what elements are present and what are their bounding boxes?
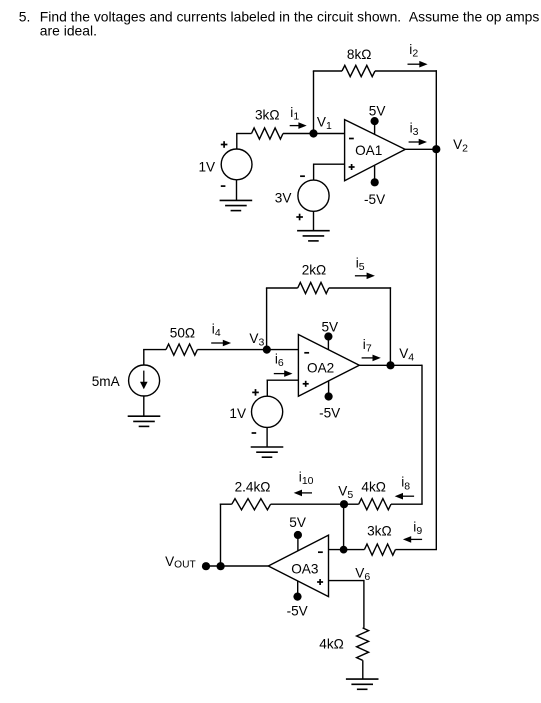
resistor R 8k feedback: [342, 65, 375, 76]
wire feedback top right segment: [375, 70, 437, 72]
svg-text:5V: 5V: [322, 320, 339, 335]
wire 3k to V2 line: [395, 549, 437, 551]
node VOUT terminal: [202, 562, 210, 570]
node VOUT junction: [217, 562, 225, 570]
current arrow i9: [410, 538, 422, 540]
wire net V2 vertical: [435, 70, 437, 549]
current arrow i3: [409, 141, 421, 143]
svg-text:OA1: OA1: [355, 143, 382, 158]
resistor R 3k i9: [364, 544, 395, 555]
wire noninverting input OA2: [267, 379, 299, 381]
svg-text:1V: 1V: [229, 406, 246, 421]
svg-text:i9: i9: [413, 520, 422, 538]
wire 4k bottom to ground: [362, 660, 364, 679]
current arrow i1: [290, 125, 300, 127]
wire 3V ground stem: [313, 211, 315, 230]
wire 5V stem OA1: [374, 121, 376, 134]
wire 1V top to resistor: [236, 134, 238, 149]
wire -5V stem OA2: [328, 381, 330, 397]
label plus input OA3: [317, 581, 323, 583]
ground under 1V top: [220, 199, 253, 201]
supply dot 5V OA1: [371, 117, 379, 125]
node minus junction OA3: [340, 546, 348, 554]
label plus of 3V: [296, 216, 303, 218]
label plus input OA1: [349, 166, 355, 168]
voltage source V 3V: [298, 180, 329, 211]
wire 2.4k down vertical: [220, 504, 222, 567]
svg-text:3kΩ: 3kΩ: [255, 107, 280, 122]
wire noninverting input OA1: [314, 163, 345, 165]
wire 2.4k left segment: [220, 503, 232, 505]
svg-text:2kΩ: 2kΩ: [302, 263, 327, 278]
wire V4 horizontal: [390, 364, 422, 366]
svg-text:5V: 5V: [289, 515, 306, 530]
wire 5V stem OA3: [297, 535, 299, 551]
supply dot 5V OA3: [294, 531, 302, 539]
svg-text:i1: i1: [290, 105, 299, 123]
svg-text:V2: V2: [453, 137, 468, 155]
wire OA2 output: [359, 364, 390, 366]
supply dot 5V OA2: [324, 332, 332, 340]
svg-text:1V: 1V: [199, 160, 216, 175]
wire V6 vertical: [363, 580, 365, 628]
svg-text:3V: 3V: [275, 190, 292, 205]
svg-text:OA3: OA3: [291, 561, 318, 576]
wire 3V to plus input: [313, 164, 315, 181]
resistor R 3k input: [252, 128, 284, 139]
label minus of 1V mid: [252, 432, 257, 434]
svg-text:i3: i3: [410, 121, 419, 139]
node V2 output: [432, 145, 440, 153]
svg-text:i7: i7: [363, 337, 372, 355]
svg-text:i2: i2: [409, 42, 418, 60]
resistor R 4k i8: [359, 499, 391, 510]
svg-text:4kΩ: 4kΩ: [319, 637, 344, 652]
wire 5mA ground stem: [143, 396, 145, 416]
supply dot -5V OA3: [293, 593, 301, 601]
label minus input OA2: [304, 352, 309, 354]
svg-text:5mA: 5mA: [92, 374, 121, 389]
resistor R 2.4k feedback: [232, 499, 271, 510]
label minus input OA1: [349, 138, 354, 140]
wire 3k to inverting input OA1: [283, 133, 345, 135]
wire V5 vertical: [343, 504, 345, 550]
wire OA3 inverting input: [329, 549, 365, 551]
node V1: [309, 129, 317, 137]
ground under 3V: [297, 230, 330, 232]
ground under 1V mid: [251, 446, 284, 448]
label plus of 1V mid: [252, 391, 259, 393]
supply dot -5V OA1: [371, 178, 379, 186]
wire -5V stem OA3: [297, 581, 299, 597]
wire OA3 noninverting input: [329, 580, 364, 582]
svg-text:-5V: -5V: [287, 604, 308, 619]
svg-text:Find the voltages and currents: Find the voltages and currents labeled i…: [40, 9, 540, 25]
svg-text:i5: i5: [356, 255, 365, 273]
svg-text:V6: V6: [355, 566, 370, 584]
wire V4 vertical: [421, 365, 423, 505]
current arrow i4: [211, 342, 224, 344]
wire feedback2 top left segment: [266, 287, 298, 289]
current arrow i2: [408, 63, 421, 65]
wire V5 to 4k: [343, 503, 358, 505]
label minus input OA3: [318, 551, 323, 553]
svg-text:5V: 5V: [369, 104, 386, 119]
current arrow i8: [402, 495, 415, 497]
svg-text:VOUT: VOUT: [165, 554, 196, 571]
resistor R 50 input: [166, 344, 197, 355]
ground under 4k bottom: [346, 678, 379, 680]
svg-text:i4: i4: [212, 322, 221, 340]
node V3: [263, 346, 271, 354]
wire 1V mid to plus input: [266, 380, 268, 397]
current arrow i5: [355, 275, 368, 277]
label minus of 3V: [300, 175, 305, 177]
svg-text:2.4kΩ: 2.4kΩ: [235, 479, 271, 494]
wire 4k to V4 line: [391, 503, 423, 505]
node V5: [340, 500, 348, 508]
resistor R 4k bottom: [357, 628, 369, 660]
current source I 5mA: [129, 365, 160, 396]
op-amp OA1: [345, 120, 406, 181]
ground under 5mA: [128, 415, 161, 417]
wire feedback2 right vertical: [389, 287, 391, 365]
voltage source V 1V mid: [252, 396, 283, 427]
wire 1V top ground stem: [236, 180, 238, 201]
wire feedback top left segment: [313, 70, 342, 72]
svg-text:are ideal.: are ideal.: [40, 23, 97, 39]
svg-text:V3: V3: [249, 331, 264, 349]
wire 1V mid ground stem: [266, 427, 268, 447]
label plus input OA2: [303, 383, 309, 385]
wire OA3 output: [206, 565, 268, 567]
current arrow i10: [301, 492, 313, 494]
op-amp OA3: [268, 535, 328, 597]
svg-text:V5: V5: [338, 483, 353, 501]
wire -5V stem OA1: [374, 166, 376, 183]
label minus of 1V top: [221, 185, 226, 187]
svg-text:V4: V4: [399, 346, 414, 364]
wire feedback vertical from node V1: [313, 71, 315, 134]
wire 5mA to resistor: [143, 350, 145, 365]
wire 5V stem OA2: [327, 337, 329, 350]
svg-text:i10: i10: [299, 469, 314, 487]
wire OA1 output: [405, 148, 436, 150]
svg-text:OA2: OA2: [307, 360, 334, 375]
current arrow i6: [274, 373, 286, 375]
svg-text:V1: V1: [317, 115, 332, 133]
wire feedback2 top right segment: [329, 287, 391, 289]
arrow inside 5mA source: [143, 371, 145, 384]
wire feedback2 left vertical: [266, 288, 268, 350]
svg-text:50Ω: 50Ω: [170, 325, 195, 340]
svg-text:5.: 5.: [19, 9, 31, 25]
voltage source V 1V top: [221, 149, 252, 180]
svg-text:-5V: -5V: [319, 405, 340, 420]
svg-text:8kΩ: 8kΩ: [347, 47, 372, 62]
op-amp OA2: [298, 335, 359, 397]
node V4: [386, 361, 394, 369]
svg-text:3kΩ: 3kΩ: [367, 523, 392, 538]
wire 2.4k right segment: [271, 503, 345, 505]
svg-text:i6: i6: [275, 352, 284, 370]
svg-text:4kΩ: 4kΩ: [361, 479, 386, 494]
wire 50 to inverting input OA2: [197, 349, 298, 351]
svg-text:-5V: -5V: [364, 192, 385, 207]
current arrow i7: [362, 357, 374, 359]
label plus of 1V top: [221, 144, 228, 146]
svg-text:i8: i8: [401, 475, 410, 493]
supply dot -5V OA2: [325, 392, 333, 400]
resistor R 2k feedback: [298, 282, 329, 293]
